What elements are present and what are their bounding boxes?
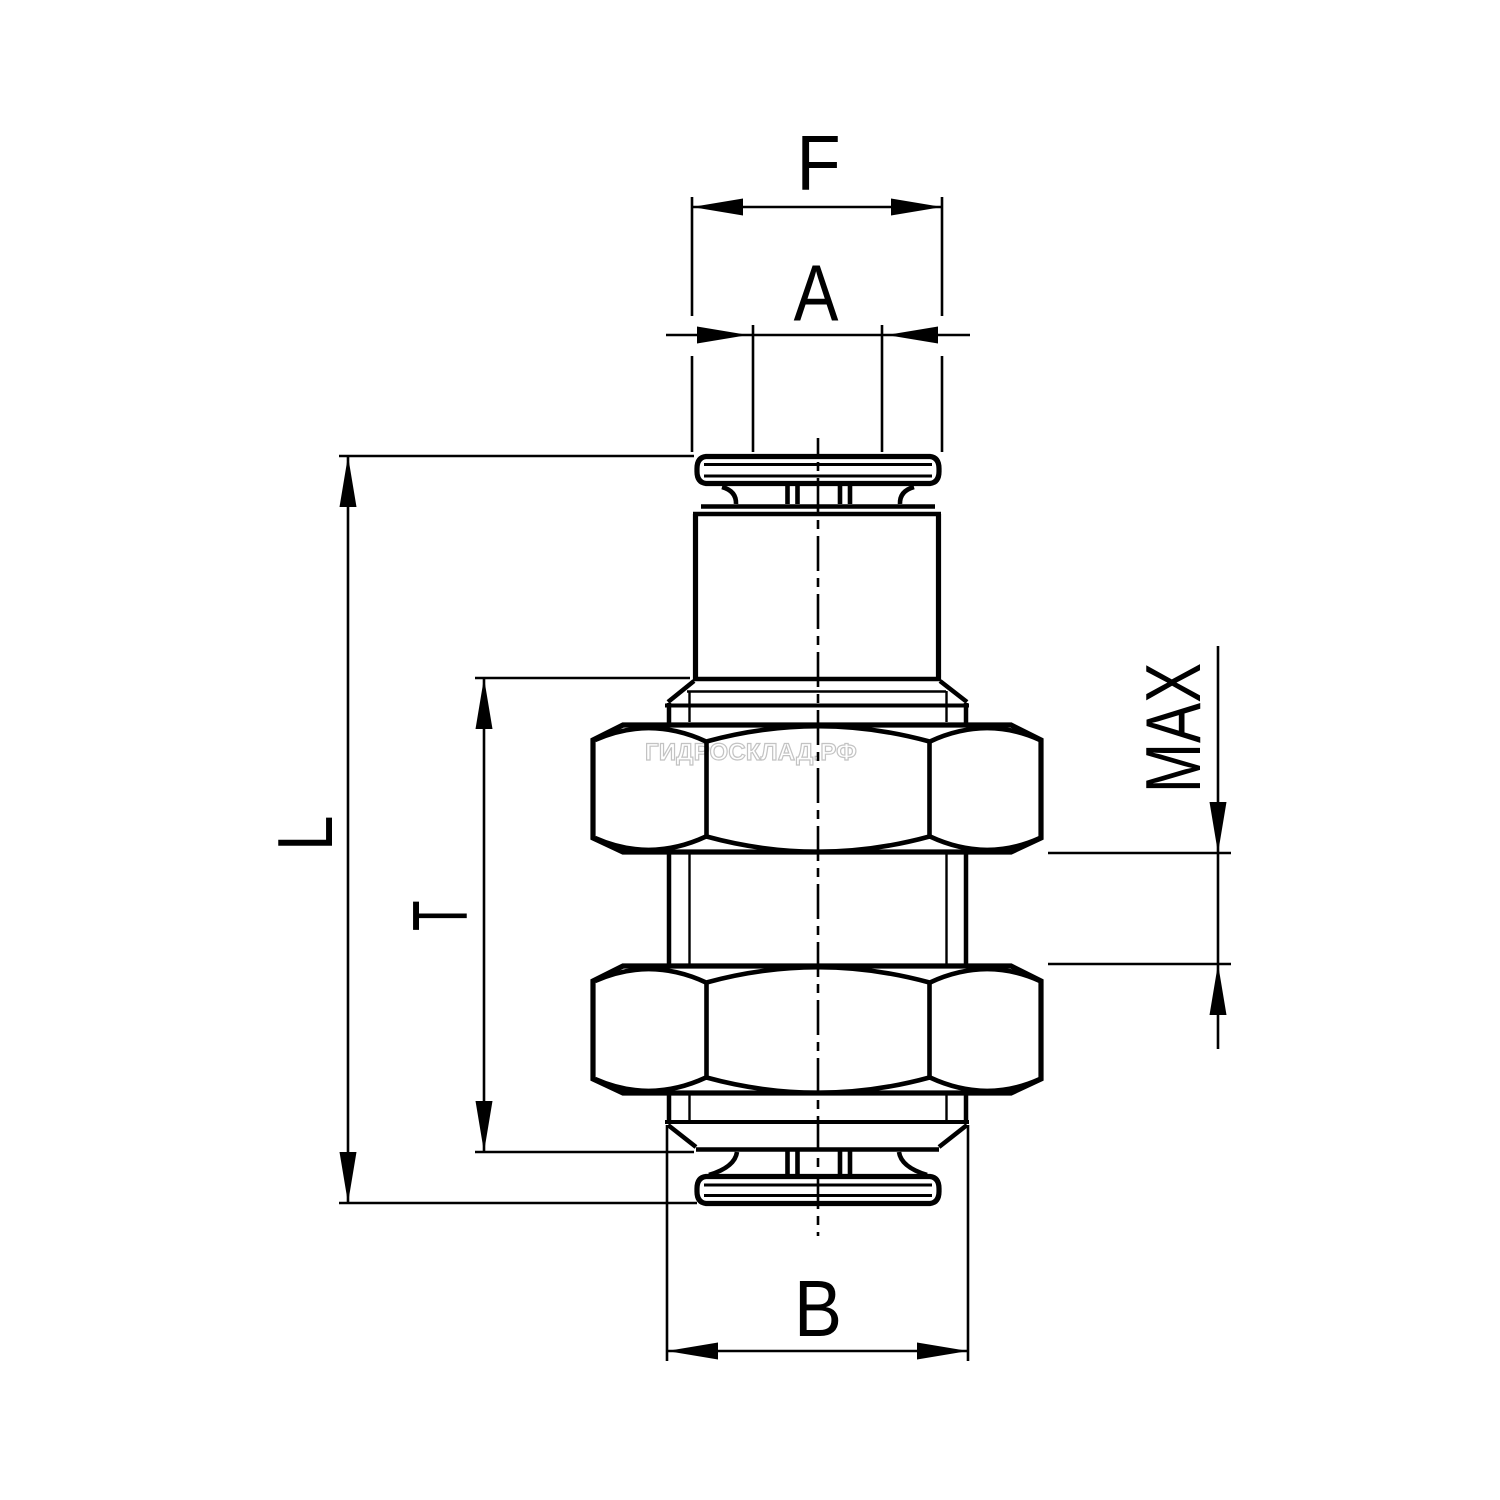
bottom collet trumpet right	[899, 1152, 927, 1175]
dim F extension lines	[692, 197, 942, 452]
dim B extension lines	[667, 1125, 968, 1361]
stem between nuts sides	[669, 851, 966, 966]
dim MAX line	[1217, 646, 1220, 1049]
thread minor lines middle	[690, 853, 947, 964]
dim L arrow top	[340, 456, 357, 507]
dim T arrow top	[476, 678, 493, 729]
dim L extension lines	[339, 456, 697, 1203]
thread minor lines top	[690, 691, 947, 722]
dim L line	[347, 456, 350, 1203]
bottom collet plate	[696, 1147, 939, 1152]
hex nut 1 outline	[593, 725, 1041, 852]
top collet trumpet left	[722, 487, 736, 504]
dim MAX arrow bottom	[1210, 964, 1227, 1015]
svg-text:A: A	[794, 248, 839, 338]
svg-text:F: F	[796, 120, 840, 207]
stem below nut sides	[669, 1091, 966, 1122]
body cylinder sides	[696, 514, 939, 679]
dim F arrow left	[692, 199, 743, 216]
hex nut 2 bottom arcs	[595, 1078, 1040, 1093]
svg-text:B: B	[794, 1265, 842, 1354]
dim MAX arrow top	[1210, 802, 1227, 853]
svg-text:MAX: MAX	[1129, 663, 1216, 793]
centerline	[817, 438, 820, 1236]
dim B arrow right	[917, 1343, 968, 1360]
stem bottom face	[665, 1120, 969, 1124]
hex nut 2 top arcs	[595, 967, 1040, 982]
stem shoulder line	[665, 704, 969, 708]
dim B line	[667, 1350, 968, 1353]
dim B arrow left	[667, 1343, 718, 1360]
bottom release ring fill	[697, 1177, 939, 1204]
dim F arrow right	[891, 199, 942, 216]
body cylinder bottom edge	[693, 677, 941, 682]
top ring groove lines	[704, 465, 932, 477]
hex nut 2 dividers	[707, 982, 930, 1078]
top collet trumpet right	[900, 487, 914, 504]
thread minor lines bottom	[690, 1093, 947, 1120]
body cylinder fill	[693, 514, 941, 679]
top release ring	[697, 457, 939, 484]
dim MAX extension lines	[1048, 853, 1231, 964]
bottom collet claws	[788, 1150, 851, 1174]
bottom collet trumpet left	[709, 1152, 737, 1175]
dim A extension lines	[753, 325, 882, 452]
flare cone top	[668, 681, 967, 702]
top collet plate	[701, 504, 935, 509]
bottom cone chamfer	[668, 1125, 967, 1147]
svg-text:T: T	[397, 901, 484, 931]
body cylinder top edge	[693, 512, 941, 517]
thread start line	[687, 690, 946, 692]
hex nut 1 fill	[593, 725, 1041, 852]
dim L arrow bottom	[340, 1152, 357, 1203]
dim T line	[483, 678, 486, 1152]
hex nut 1 top arcs	[595, 726, 1040, 741]
dim T extension lines	[475, 678, 694, 1152]
hex nut 2 outline	[593, 966, 1041, 1093]
stem fill	[667, 703, 968, 1122]
top collet claws	[788, 486, 851, 504]
stem sides top section	[669, 703, 966, 723]
svg-text:ГИДРОСКЛАД.РФ: ГИДРОСКЛАД.РФ	[645, 739, 857, 766]
top release ring fill	[697, 457, 939, 484]
svg-text:L: L	[262, 815, 349, 851]
dim A arrow right	[887, 327, 938, 344]
dim T arrow bottom	[476, 1101, 493, 1152]
dim F line	[692, 206, 942, 209]
bottom release ring	[697, 1177, 939, 1204]
hex nut 1 bottom arcs	[595, 837, 1040, 852]
hex nut 1 dividers	[707, 741, 930, 837]
bottom ring groove lines	[704, 1185, 932, 1196]
dim A arrow left	[697, 327, 748, 344]
dim A line	[666, 334, 970, 337]
hex nut 2 fill	[593, 966, 1041, 1093]
